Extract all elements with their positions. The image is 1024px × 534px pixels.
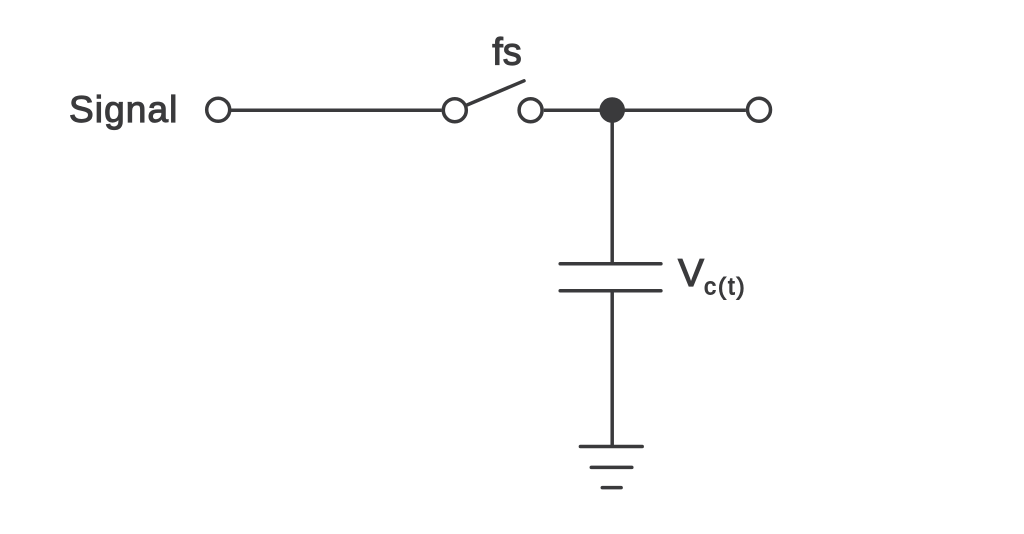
wire node A to terminal T2 [625,108,746,112]
svg-text:Signal: Signal [69,89,178,130]
label Vc(t) (capacitor voltage) [678,252,747,301]
ground [580,447,642,488]
terminal T2 (output) [748,98,771,121]
capacitor C bottom plate [560,289,661,293]
switch S1 lever (open) [467,81,524,105]
wire T1 to switch pole [231,108,442,112]
capacitor C top plate [560,262,661,266]
terminal T1 (signal input) [207,98,230,121]
svg-text:V: V [678,252,704,295]
svg-text:fs: fs [492,32,522,74]
svg-text:c(t): c(t) [704,274,747,301]
switch S1 throw contact [519,99,542,122]
switch S1 pole contact [443,99,466,122]
wire capacitor to ground [610,293,614,447]
wire switch throw to node A [544,108,600,112]
wire node A down to capacitor [610,112,614,262]
node A (junction) [599,97,625,123]
